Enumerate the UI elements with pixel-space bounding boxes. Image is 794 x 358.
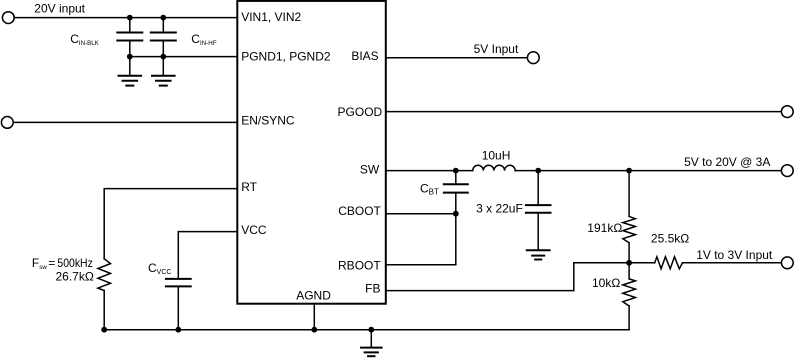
svg-text:1V to 3V Input: 1V to 3V Input [696, 248, 773, 262]
svg-text:VCC: VCC [241, 223, 267, 237]
svg-text:25.5kΩ: 25.5kΩ [651, 231, 689, 245]
svg-text:PGOOD: PGOOD [338, 105, 383, 119]
svg-text:20V input: 20V input [34, 1, 85, 15]
svg-text:FB: FB [365, 282, 380, 296]
svg-text:CBOOT: CBOOT [338, 204, 381, 218]
svg-text:CIN-BLK: CIN-BLK [70, 32, 99, 47]
svg-text:CBT: CBT [420, 181, 439, 196]
svg-text:VIN1, VIN2: VIN1, VIN2 [241, 10, 301, 24]
svg-text:191kΩ: 191kΩ [587, 221, 622, 235]
svg-text:RBOOT: RBOOT [338, 258, 381, 272]
svg-text:=: = [48, 256, 55, 270]
svg-text:3 x 22uF: 3 x 22uF [476, 201, 523, 215]
svg-text:500kHz: 500kHz [57, 256, 92, 270]
svg-text:EN/SYNC: EN/SYNC [241, 114, 295, 128]
svg-text:SW: SW [360, 163, 380, 177]
svg-text:5V Input: 5V Input [474, 42, 519, 56]
svg-text:10uH: 10uH [482, 149, 511, 163]
svg-text:CVCC: CVCC [148, 261, 171, 276]
svg-text:BIAS: BIAS [351, 49, 378, 63]
svg-text:AGND: AGND [296, 288, 331, 302]
svg-text:Fsw: Fsw [32, 256, 47, 271]
svg-text:5V to 20V @ 3A: 5V to 20V @ 3A [684, 155, 770, 169]
svg-text:26.7kΩ: 26.7kΩ [56, 269, 94, 283]
svg-text:CIN-HF: CIN-HF [191, 32, 216, 47]
svg-text:PGND1, PGND2: PGND1, PGND2 [241, 50, 331, 64]
svg-text:RT: RT [241, 180, 257, 194]
svg-text:10kΩ: 10kΩ [592, 276, 620, 290]
